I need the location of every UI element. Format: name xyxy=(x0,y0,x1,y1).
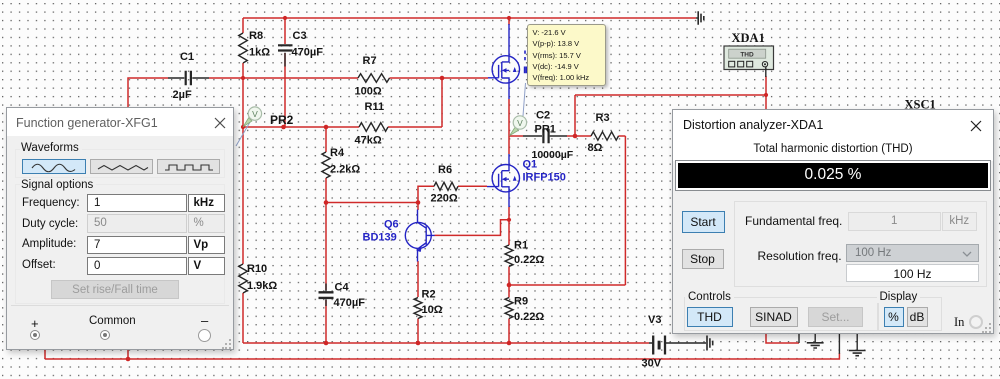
svg-text:R6: R6 xyxy=(438,164,452,176)
wire R11 to vertical xyxy=(388,126,442,128)
svg-text:Q6: Q6 xyxy=(384,219,399,231)
capacitor C4 xyxy=(319,284,334,307)
ground at V3 xyxy=(707,336,713,351)
svg-text:1kΩ: 1kΩ xyxy=(249,47,270,59)
svg-text:0.22Ω: 0.22Ω xyxy=(514,254,544,266)
resistor R4 zigzag xyxy=(322,152,330,178)
resistor R10 zigzag xyxy=(239,264,248,293)
scope pin stub 1 xyxy=(798,334,800,343)
resistor R3 zigzag xyxy=(591,132,619,140)
capacitor C1 xyxy=(168,71,209,85)
junction Q6 collector xyxy=(416,200,421,205)
wire PR2 node to R11 xyxy=(243,126,359,128)
svg-text:C2: C2 xyxy=(536,110,550,122)
ground top right xyxy=(696,11,704,25)
svg-text:47kΩ: 47kΩ xyxy=(355,135,382,147)
junction XDA tap xyxy=(764,93,768,97)
wire gate feedback vertical xyxy=(441,78,443,127)
wire XFG to C1 xyxy=(128,78,168,110)
probe PR1 xyxy=(510,83,527,136)
svg-text:C1: C1 xyxy=(180,51,194,63)
svg-text:470µF: 470µF xyxy=(292,47,324,59)
junction C1/R8 node xyxy=(241,76,245,80)
junction output R1 R9 xyxy=(507,283,512,288)
svg-text:V: V xyxy=(252,109,258,119)
svg-text:THD: THD xyxy=(740,51,754,58)
svg-text:0.22Ω: 0.22Ω xyxy=(514,311,544,323)
wire Q2 drain stub xyxy=(508,18,510,25)
svg-text:8Ω: 8Ω xyxy=(588,142,603,154)
wire R2 bottom xyxy=(417,319,419,344)
mosfet Q2 xyxy=(488,24,520,99)
junction C3 top xyxy=(283,16,287,20)
svg-text:Q1: Q1 xyxy=(523,159,538,171)
svg-text:R2: R2 xyxy=(422,289,436,301)
svg-text:100Ω: 100Ω xyxy=(355,86,382,98)
wire Q6 emitter to R2 xyxy=(417,261,419,297)
svg-text:1.9kΩ: 1.9kΩ xyxy=(247,280,277,292)
wire C4 top xyxy=(325,203,327,291)
junction Q2 drain xyxy=(507,16,511,20)
svg-text:V: V xyxy=(517,118,523,128)
resistor R11 zigzag xyxy=(359,123,388,132)
svg-text:10000µF: 10000µF xyxy=(532,149,574,161)
dialog Function generator XFG1 xyxy=(6,107,234,350)
svg-text:2.2kΩ: 2.2kΩ xyxy=(330,164,360,176)
junction XFG rail B xyxy=(126,357,131,362)
wire R3 right xyxy=(619,135,626,137)
resistor R1 zigzag xyxy=(505,245,513,266)
wire top ground rail xyxy=(243,17,696,19)
resistor R9 zigzag xyxy=(505,298,513,319)
resistor R8 zigzag xyxy=(239,33,248,63)
wire XDA1 pin xyxy=(765,76,767,109)
battery V3 xyxy=(649,336,706,355)
svg-text:R3: R3 xyxy=(596,112,610,124)
svg-text:30V: 30V xyxy=(642,358,662,370)
svg-text:R7: R7 xyxy=(363,55,377,67)
wire C2 to R3 xyxy=(567,135,591,137)
svg-text:C4: C4 xyxy=(335,282,350,294)
wire bottom rail B xyxy=(45,353,839,359)
svg-text:10Ω: 10Ω xyxy=(422,304,443,316)
wire C1 to R7 xyxy=(209,77,358,79)
wire THD tap horizontal xyxy=(575,94,766,96)
svg-text:C3: C3 xyxy=(293,30,307,42)
svg-text:R4: R4 xyxy=(330,147,345,159)
junction R7 gate node xyxy=(440,76,445,81)
svg-text:R9: R9 xyxy=(514,296,528,308)
svg-text:R10: R10 xyxy=(247,263,267,275)
svg-text:R8: R8 xyxy=(249,30,263,42)
svg-text:XDA1: XDA1 xyxy=(732,31,765,45)
junction PR2 rail xyxy=(241,125,245,129)
wire R6 left drop xyxy=(418,186,434,202)
wire XFG common drop xyxy=(127,349,129,359)
junction C4 rail xyxy=(324,341,329,346)
ground below scope left xyxy=(807,334,824,348)
junction C3 bottom xyxy=(281,125,286,130)
wire left rail below R10 xyxy=(242,293,244,343)
wire XFG plus drop xyxy=(44,349,46,359)
wire R3 drop to output xyxy=(624,136,626,285)
capacitor C2 xyxy=(523,129,567,143)
ground below scope right xyxy=(849,334,866,356)
wire Q6 base to Q1 source column xyxy=(435,220,510,236)
wire R9 bottom xyxy=(508,319,510,344)
wire R4 bottom xyxy=(325,178,327,203)
svg-text:470µF: 470µF xyxy=(334,297,366,309)
junction R9 rail xyxy=(507,341,512,346)
wire output line xyxy=(509,284,625,286)
svg-text:2µF: 2µF xyxy=(173,89,192,101)
svg-text:220Ω: 220Ω xyxy=(431,193,458,205)
wire C2 node xyxy=(509,135,523,137)
svg-text:PR2: PR2 xyxy=(270,113,294,127)
junction R2 rail xyxy=(416,341,421,346)
transistor Q6 xyxy=(405,210,434,262)
junction R4 top xyxy=(324,125,329,130)
svg-text:IRFP150: IRFP150 xyxy=(523,172,566,184)
svg-text:R1: R1 xyxy=(514,240,528,252)
wire scope stub bottom xyxy=(766,334,799,343)
wire left rail above R8 xyxy=(242,18,244,33)
probe PR2 xyxy=(236,107,262,146)
hidden label fragments behind tooltip xyxy=(525,51,527,74)
wire Q2 source down to C2 node xyxy=(508,99,510,136)
dialog Distortion analyzer XDA1 xyxy=(672,109,994,334)
svg-text:BD139: BD139 xyxy=(363,232,397,244)
junction C2 R3 tap xyxy=(573,134,578,139)
wire C4 bottom xyxy=(325,300,327,343)
wire R6 right to Q1 gate xyxy=(458,185,487,187)
probe tooltip readout xyxy=(527,24,606,87)
wire C3 bottom xyxy=(284,53,286,127)
wire THD tap vertical xyxy=(574,95,576,136)
wire left rail R8 to R10 xyxy=(242,63,244,264)
svg-text:PR1: PR1 xyxy=(535,124,556,136)
resistor R6 zigzag xyxy=(434,182,458,190)
resistor R2 zigzag xyxy=(414,298,422,319)
junction Q6 base Q1 source xyxy=(507,218,511,222)
scope pin stub 2 xyxy=(838,334,840,354)
capacitor C3 xyxy=(278,45,293,66)
instrument XDA1 icon xyxy=(724,46,774,77)
wire R7 to Q2 gate xyxy=(390,77,489,79)
svg-text:V3: V3 xyxy=(648,314,661,326)
wire Q1 source to R1 xyxy=(508,207,510,245)
wire C3 top xyxy=(284,18,286,44)
wire Q1 drain xyxy=(508,136,510,154)
wire R1 to R9 xyxy=(508,267,510,298)
mosfet Q1 xyxy=(487,154,520,207)
wire R4/C4 to Q6 collector node xyxy=(326,202,418,204)
wire bottom rail A xyxy=(243,342,649,344)
wire Q6 collector stub xyxy=(417,203,419,211)
wire R4 top xyxy=(325,127,327,152)
svg-text:R11: R11 xyxy=(365,101,385,113)
junction R4 C4 xyxy=(324,200,329,205)
resistor R7 zigzag xyxy=(358,74,390,83)
